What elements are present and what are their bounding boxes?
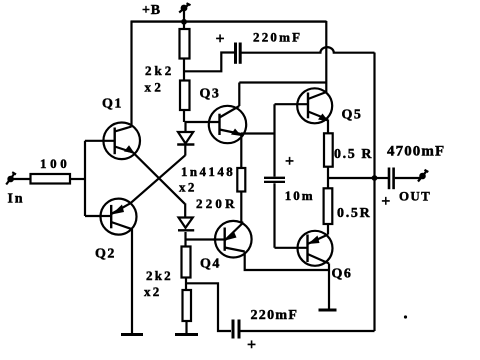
transistor Q5 <box>297 88 332 123</box>
wire Q4 emitter link from R4 <box>241 221 243 223</box>
wire right vertical (output node rail) <box>373 53 375 332</box>
power terminal +B <box>179 3 190 21</box>
resistor R2 2k2 (lower of pair) <box>180 81 190 123</box>
svg-text:OUT: OUT <box>399 188 431 203</box>
wire top rail +B <box>131 20 327 22</box>
wire Q5 collector up to +B rail <box>325 21 327 92</box>
resistor R7 0.5R <box>324 133 333 188</box>
svg-text:In: In <box>8 191 25 206</box>
output terminal <box>418 170 428 182</box>
input terminal <box>6 172 16 184</box>
wire Q4 collector <box>245 252 329 271</box>
diode D1 1n4148 <box>177 122 194 156</box>
wire Q3 base <box>185 121 220 123</box>
transistor Q2 <box>99 155 185 234</box>
svg-text:10m: 10m <box>285 188 315 203</box>
svg-text:220mF: 220mF <box>251 308 299 323</box>
wire C2 right lead to output rail <box>241 330 375 332</box>
svg-text:+B: +B <box>142 3 161 18</box>
wire input to R3 <box>12 178 31 180</box>
resistor R4 220R <box>237 168 245 223</box>
wire Q3 collector to Q5 collector <box>239 81 326 83</box>
capacitor C3 10m <box>264 104 285 248</box>
diode D2 <box>178 203 194 246</box>
svg-text:x2: x2 <box>145 79 165 94</box>
svg-text:Q5: Q5 <box>342 107 363 122</box>
svg-text:+: + <box>285 153 294 170</box>
svg-text:+: + <box>216 30 225 47</box>
wire branch to C1 <box>185 53 235 72</box>
wire C1 right lead with hop over Q5 collector line <box>242 47 375 53</box>
svg-text:x2: x2 <box>179 179 197 194</box>
wire output node horizontal <box>328 177 375 179</box>
transistor Q3 <box>209 106 246 143</box>
svg-text:+: + <box>381 193 390 210</box>
transistor Q4 <box>213 221 252 258</box>
wire Q1 base <box>85 140 115 142</box>
junction node output <box>372 175 378 181</box>
wire Q3 emitter down to R4 <box>240 134 242 169</box>
svg-text:Q3: Q3 <box>200 87 221 102</box>
wire Q3 collector vertical <box>238 83 240 107</box>
svg-text:4700mF: 4700mF <box>387 143 445 159</box>
svg-text:2k2: 2k2 <box>145 63 174 78</box>
capacitor C4 4700mF <box>375 168 421 190</box>
resistor R8 0.5R <box>324 188 333 234</box>
wire R3 to base node <box>70 178 85 180</box>
svg-text:0.5R: 0.5R <box>337 206 371 221</box>
resistor R6 2k2 (lower pair lower) <box>183 290 192 334</box>
capacitor C1 220mF <box>236 43 241 64</box>
svg-text:x2: x2 <box>144 284 161 299</box>
svg-text:2k2: 2k2 <box>146 268 173 283</box>
capacitor C2 220mF (bottom) <box>233 320 239 339</box>
svg-text:220mF: 220mF <box>253 30 302 45</box>
svg-text:Q6: Q6 <box>332 267 353 282</box>
wire Q5 base <box>275 103 309 105</box>
resistor R3 100 <box>31 174 71 184</box>
ground (R6) <box>175 333 198 336</box>
svg-text:0.5 R: 0.5 R <box>334 147 373 162</box>
stray dot <box>404 315 407 318</box>
svg-text:+: + <box>247 337 256 354</box>
resistor R1 2k2 (upper) <box>180 21 190 81</box>
svg-text:100: 100 <box>40 156 70 171</box>
svg-text:1n4148: 1n4148 <box>181 164 235 179</box>
junction node at top rail <box>181 19 187 25</box>
wire Q5 emitter to R7 <box>327 120 329 134</box>
resistor R5 2k2 (lower pair upper) <box>182 247 191 291</box>
ground (Q6) <box>319 309 337 312</box>
wire Q3 emitter to 10m node <box>241 132 275 134</box>
transistor Q1 <box>103 21 184 204</box>
wire Q2 collector <box>131 229 133 334</box>
wire base vertical Q1-Q2 <box>84 141 86 216</box>
wire Q6 base <box>275 247 308 249</box>
svg-text:Q2: Q2 <box>95 247 116 262</box>
svg-text:Q1: Q1 <box>102 97 123 112</box>
svg-text:Q4: Q4 <box>200 257 221 272</box>
transistor Q6 <box>298 231 333 266</box>
wire Q2 base <box>85 215 111 217</box>
svg-text:220R: 220R <box>196 196 238 211</box>
wire D2 to Q4 base <box>186 238 218 240</box>
wire R5/R6 node to C2 <box>186 283 231 331</box>
wire Q6 collector down <box>328 264 330 310</box>
ground (Q2) <box>121 333 143 336</box>
